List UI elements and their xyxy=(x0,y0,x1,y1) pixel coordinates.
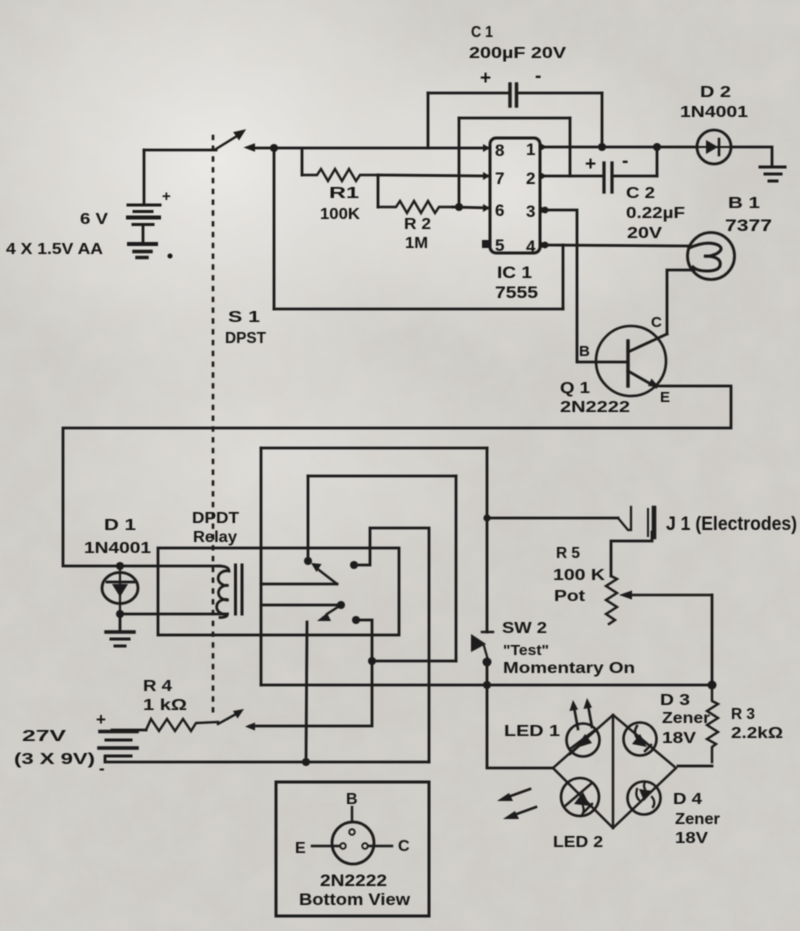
node dot xyxy=(270,144,278,152)
svg-text:6 V: 6 V xyxy=(80,211,108,228)
svg-text:100 K: 100 K xyxy=(553,567,606,584)
wire loop pin2-pin6 xyxy=(459,118,570,207)
resistor R1 xyxy=(302,149,378,181)
svg-text:5: 5 xyxy=(495,236,504,255)
S1 linkage dashed line xyxy=(212,136,215,712)
wire Q1 emitter return rail xyxy=(63,386,731,566)
capacitor C2 xyxy=(540,147,657,192)
wire SW2 feed vertical xyxy=(486,448,489,632)
node dot relay inner junction xyxy=(368,657,376,665)
svg-text:J 1 (Electrodes): J 1 (Electrodes) xyxy=(666,514,797,535)
svg-text:D 2: D 2 xyxy=(700,84,731,101)
svg-text:2N2222: 2N2222 xyxy=(560,399,630,416)
node dot D1 top xyxy=(116,562,124,570)
relay pole2 arm xyxy=(317,605,341,621)
svg-text:1N4001: 1N4001 xyxy=(84,540,151,557)
svg-text:C 1: C 1 xyxy=(471,24,493,41)
relay pole1 wire xyxy=(261,583,337,586)
node dot pin4 xyxy=(542,242,549,249)
wire R2 to pin6 xyxy=(453,207,490,208)
wire relay top edge xyxy=(261,447,487,450)
svg-text:3: 3 xyxy=(526,202,535,221)
wire switch to pin8 xyxy=(252,147,490,150)
IC pin numbers xyxy=(495,140,536,256)
LED1 light arrows xyxy=(570,698,593,729)
LED2 xyxy=(561,778,599,816)
svg-text:B: B xyxy=(346,791,358,808)
svg-text:1 kΩ: 1 kΩ xyxy=(143,697,187,714)
zener D3 xyxy=(624,723,657,756)
wire ground-return horizontal xyxy=(274,308,563,311)
svg-text:S 1: S 1 xyxy=(228,309,260,326)
wire ground-return vertical xyxy=(273,148,276,309)
svg-text:D 4: D 4 xyxy=(673,791,702,808)
node dot pole2 pivot xyxy=(337,601,345,609)
pin 5 pad xyxy=(482,240,490,248)
wire D1 to coil bottom xyxy=(120,613,225,616)
svg-text:IC 1: IC 1 xyxy=(497,263,532,282)
svg-text:DPDT: DPDT xyxy=(192,510,239,527)
svg-text:Zener: Zener xyxy=(662,710,710,727)
pin 6 pad xyxy=(483,204,490,212)
svg-text:2: 2 xyxy=(526,169,535,188)
wire pole2 contact down to R4 switch xyxy=(250,620,372,726)
node dot bottom rail xyxy=(302,758,310,766)
diode D2 xyxy=(697,130,731,164)
svg-text:Q 1: Q 1 xyxy=(560,380,590,397)
relay pole1 arm xyxy=(311,563,337,584)
svg-text:D 3: D 3 xyxy=(660,692,690,709)
LED1 xyxy=(567,724,600,757)
transistor Q1 xyxy=(596,326,667,396)
relay K1 box xyxy=(158,548,399,635)
svg-text:Bottom View: Bottom View xyxy=(299,890,411,909)
node dot J1 feed xyxy=(483,514,490,521)
svg-text:8: 8 xyxy=(495,141,504,160)
pin 3 pad xyxy=(540,206,547,214)
LED2 light arrows xyxy=(497,789,536,819)
svg-text:+: + xyxy=(96,710,106,729)
svg-text:4: 4 xyxy=(526,237,536,256)
svg-text:+: + xyxy=(480,68,491,89)
svg-text:-: - xyxy=(535,66,541,87)
IC U1 7555 body xyxy=(490,138,540,253)
2N2222 bottom view drawing xyxy=(312,807,392,864)
svg-text:1N4001: 1N4001 xyxy=(680,104,748,121)
pin 2 pad xyxy=(540,172,547,180)
svg-text:100K: 100K xyxy=(320,206,360,223)
wire SW2 down to bridge left xyxy=(487,685,553,768)
node dot C1 right to pin1 wire xyxy=(598,143,606,151)
LED bridge frame xyxy=(553,715,676,828)
wire R5 wiper to rail xyxy=(711,595,714,685)
node dot pin3 xyxy=(542,207,549,214)
svg-text:Relay: Relay xyxy=(193,529,237,546)
pin 7 pad xyxy=(483,172,490,180)
wire J1 feed xyxy=(487,517,618,520)
resistor R4 xyxy=(146,719,218,731)
svg-text:SW 2: SW 2 xyxy=(502,620,547,637)
svg-text:Zener: Zener xyxy=(675,811,720,828)
svg-text:0.22µF: 0.22µF xyxy=(626,205,685,222)
wire J1 to R5 xyxy=(611,532,652,576)
svg-text:LED 2: LED 2 xyxy=(553,834,603,851)
svg-text:+: + xyxy=(585,154,596,175)
wire relay spine vertical xyxy=(260,448,263,685)
svg-text:R1: R1 xyxy=(329,185,359,202)
pin 8 pad xyxy=(483,144,490,152)
pin 1 pad xyxy=(540,143,547,151)
ground (D1) xyxy=(106,614,134,646)
svg-text:"Test": "Test" xyxy=(503,642,549,659)
zener D4 xyxy=(628,782,661,815)
diode D1 xyxy=(102,566,138,614)
switch S1 pole A xyxy=(216,130,255,151)
wire pin1 to D2 xyxy=(540,146,697,149)
svg-text:-: - xyxy=(622,151,628,172)
battery 6V xyxy=(128,150,160,244)
pin 4 pad xyxy=(540,241,547,249)
svg-text:B: B xyxy=(579,343,590,360)
node dot NO contact pole1 xyxy=(304,557,312,565)
svg-text:Momentary On: Momentary On xyxy=(503,660,635,677)
svg-text:(3 X 9V): (3 X 9V) xyxy=(14,751,95,768)
node dot NC contact pole1 xyxy=(350,561,358,569)
svg-text:+: + xyxy=(162,188,171,205)
svg-text:Pot: Pot xyxy=(554,588,586,605)
svg-text:18V: 18V xyxy=(662,730,696,747)
svg-text:C: C xyxy=(398,838,410,855)
ground (battery 6V) xyxy=(134,252,151,258)
wire NO pole2 down to rail xyxy=(306,561,308,762)
wire pin3 to Q1 base xyxy=(540,210,596,362)
svg-text:E: E xyxy=(295,840,306,857)
svg-text:B 1: B 1 xyxy=(728,195,760,212)
node dot C2 branch xyxy=(653,143,661,151)
svg-text:7: 7 xyxy=(495,169,504,188)
resistor R3 xyxy=(678,685,718,766)
svg-text:R 5: R 5 xyxy=(556,545,580,562)
svg-text:R 3: R 3 xyxy=(731,706,755,723)
wire pole1 contact to R4 switch line xyxy=(354,528,429,762)
lamp B1 xyxy=(688,233,735,280)
battery 27V xyxy=(99,730,429,762)
jack J1 xyxy=(618,507,654,537)
node dot SW2 to rail xyxy=(483,681,491,689)
wire to relay coil top xyxy=(158,565,220,568)
svg-text:DPST: DPST xyxy=(225,330,266,347)
wire R1 right down to R2 xyxy=(377,175,380,207)
svg-text:E: E xyxy=(660,389,670,406)
svg-text:20V: 20V xyxy=(627,225,662,242)
relay pole2 wire xyxy=(261,604,341,607)
svg-text:C: C xyxy=(651,314,662,331)
2N2222 bottom view box xyxy=(276,782,429,916)
resistor R2 xyxy=(378,201,453,213)
svg-text:R 2: R 2 xyxy=(404,216,431,233)
rail relay bottom xyxy=(261,684,713,687)
capacitor C1 xyxy=(428,84,602,148)
svg-text:1: 1 xyxy=(526,140,535,159)
node dot contact pole2 xyxy=(352,616,360,624)
wire up to pin4 xyxy=(562,245,565,309)
svg-text:18V: 18V xyxy=(675,830,708,847)
wire B1 to Q1 collector xyxy=(667,270,694,334)
switch SW2 xyxy=(471,632,493,685)
svg-text:1M: 1M xyxy=(405,235,428,252)
node dot rail to R3 xyxy=(708,681,717,690)
svg-text:27V: 27V xyxy=(22,728,67,745)
switch S1 pole B xyxy=(218,709,255,731)
dot after AA xyxy=(168,254,173,259)
ground (right of D2) xyxy=(760,167,785,181)
svg-text:D 1: D 1 xyxy=(104,517,136,534)
svg-text:LED 1: LED 1 xyxy=(504,723,560,740)
svg-text:7555: 7555 xyxy=(495,283,538,302)
svg-text:4 X 1.5V AA: 4 X 1.5V AA xyxy=(6,241,103,258)
svg-text:6: 6 xyxy=(495,201,504,220)
svg-text:2.2kΩ: 2.2kΩ xyxy=(731,725,783,742)
svg-text:-: - xyxy=(99,759,105,778)
svg-text:R 4: R 4 xyxy=(143,678,172,695)
svg-text:200µF 20V: 200µF 20V xyxy=(469,45,566,62)
potentiometer R5 xyxy=(606,576,712,624)
relay coil xyxy=(217,565,242,618)
wire pin4 to B1 xyxy=(540,245,690,246)
node dot D1 bottom xyxy=(116,610,124,618)
wire battery top to switch xyxy=(144,149,216,152)
svg-text:7377: 7377 xyxy=(725,216,772,235)
relay inner frame xyxy=(308,476,456,661)
node dot loop to pin6 wire xyxy=(455,203,463,211)
wire R1 to pin7 xyxy=(378,175,490,176)
svg-text:2N2222: 2N2222 xyxy=(320,871,387,890)
wire D2 to ground xyxy=(731,147,772,167)
svg-text:C 2: C 2 xyxy=(626,185,655,202)
